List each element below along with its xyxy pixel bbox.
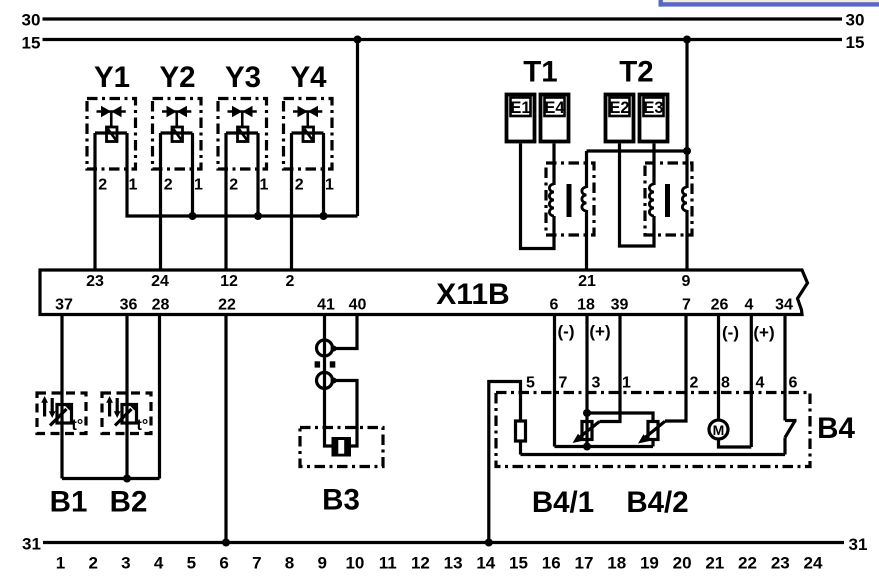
wire X11B 7 to B4 pin 2 wiper xyxy=(665,316,686,421)
svg-text:30: 30 xyxy=(846,11,865,30)
wire: secondary top link T1-T2 xyxy=(587,149,688,152)
wire: B1/B2/28 bottom link xyxy=(62,477,160,480)
B3 box xyxy=(300,428,383,467)
svg-text:16: 16 xyxy=(542,554,561,573)
svg-text:(+): (+) xyxy=(589,322,610,341)
UI window corner (blue) xyxy=(659,0,879,7)
svg-text:17: 17 xyxy=(575,554,594,573)
svg-text:11: 11 xyxy=(379,554,397,573)
svg-text:10: 10 xyxy=(345,554,364,573)
svg-text:B3: B3 xyxy=(322,484,360,517)
solenoid valve Y1 xyxy=(87,61,138,270)
svg-text:24: 24 xyxy=(804,554,823,573)
svg-text:9: 9 xyxy=(317,554,326,573)
svg-text:15: 15 xyxy=(846,33,865,52)
wire X11B 22 to line 31 xyxy=(224,316,227,543)
node: dot on line 31 xyxy=(485,539,493,547)
svg-text:13: 13 xyxy=(444,554,463,573)
solenoid valve Y2 xyxy=(153,61,204,270)
svg-text:31: 31 xyxy=(849,535,868,554)
shield connector bottom xyxy=(317,372,333,388)
wire X11B 28 xyxy=(158,316,161,479)
wire E3 to primary top xyxy=(652,144,655,186)
svg-text:T1: T1 xyxy=(523,56,557,89)
connector E4 xyxy=(541,95,569,142)
svg-text:E1: E1 xyxy=(510,99,530,117)
svg-text:12: 12 xyxy=(220,273,238,290)
svg-text:t°: t° xyxy=(72,417,84,434)
svg-text:21: 21 xyxy=(578,273,596,290)
svg-text:24: 24 xyxy=(151,273,169,290)
wire X11B 34 to B4 pin 6 switch xyxy=(783,316,786,421)
svg-text:4: 4 xyxy=(745,296,754,313)
svg-text:40: 40 xyxy=(349,296,367,313)
connector E1 xyxy=(507,95,535,142)
svg-text:8: 8 xyxy=(721,375,730,392)
svg-text:M: M xyxy=(713,422,725,438)
svg-text:1: 1 xyxy=(194,177,203,194)
svg-text:20: 20 xyxy=(673,554,692,573)
svg-text:3: 3 xyxy=(592,375,601,392)
connector E2 xyxy=(606,95,634,142)
wire X11B 36 through B2 xyxy=(125,316,128,479)
bus line 15 xyxy=(43,38,843,41)
node: Y2 pin1 junction xyxy=(189,212,197,220)
B4 box xyxy=(496,393,810,467)
knock sensor B3 xyxy=(300,316,383,517)
bus pots bottom xyxy=(555,445,654,448)
bottom pin numbers 1-24 xyxy=(56,554,823,573)
svg-text:23: 23 xyxy=(771,554,790,573)
wire from line 15 to X11B pin 9 through T2 secondary xyxy=(685,40,688,189)
node: Y4 pin1 junction xyxy=(320,212,328,220)
svg-text:B4/1: B4/1 xyxy=(532,486,594,519)
wire X11B 41 to element xyxy=(325,316,332,446)
T2 coil box xyxy=(645,163,692,235)
svg-text:Y3: Y3 xyxy=(225,61,261,94)
T2 core xyxy=(665,184,670,217)
svg-text:E2: E2 xyxy=(609,99,629,117)
potentiometer 1 xyxy=(583,409,591,417)
svg-text:B4: B4 xyxy=(817,412,855,445)
svg-text:E3: E3 xyxy=(643,99,663,117)
svg-text:2: 2 xyxy=(98,177,107,194)
svg-text:37: 37 xyxy=(55,296,73,313)
piezo element xyxy=(332,437,352,457)
svg-text:6: 6 xyxy=(789,375,798,392)
solenoid valve Y4 xyxy=(284,61,335,270)
potentiometer 2 xyxy=(648,422,658,440)
node: junction on pin-9 riser xyxy=(683,147,691,155)
svg-text:t°: t° xyxy=(137,417,149,434)
svg-text:18: 18 xyxy=(607,554,626,573)
svg-text:39: 39 xyxy=(611,296,629,313)
svg-text:2: 2 xyxy=(286,273,295,290)
svg-text:26: 26 xyxy=(711,296,729,313)
svg-text:7: 7 xyxy=(559,375,568,392)
svg-text:23: 23 xyxy=(86,273,104,290)
shield dashes xyxy=(315,361,321,367)
svg-text:6: 6 xyxy=(550,296,559,313)
temperature sensor B1 xyxy=(37,393,87,519)
svg-text:4: 4 xyxy=(154,554,164,573)
svg-text:2: 2 xyxy=(88,554,97,573)
wire pot1 top link to pot2 xyxy=(587,413,653,422)
svg-text:X11B: X11B xyxy=(436,278,509,311)
wire E4 to primary top xyxy=(552,144,555,186)
svg-text:8: 8 xyxy=(285,554,294,573)
T1 primary winding xyxy=(549,184,554,216)
svg-text:4: 4 xyxy=(756,375,765,392)
T2 secondary winding xyxy=(682,187,687,211)
wire X11B 39 to B4 pin 1 xyxy=(600,316,621,422)
node: dot on line 15 at pin-9 riser xyxy=(683,36,691,44)
svg-text:15: 15 xyxy=(509,554,528,573)
bus line 30 xyxy=(43,17,843,20)
svg-text:22: 22 xyxy=(218,296,236,313)
node: dot on line 15 at riser xyxy=(354,36,362,44)
wire E1 to primary bottom xyxy=(521,144,555,249)
svg-text:34: 34 xyxy=(775,296,793,313)
svg-text:21: 21 xyxy=(705,554,724,573)
resistor R on pin 5 xyxy=(516,421,526,441)
svg-text:(-): (-) xyxy=(722,323,739,342)
svg-text:1: 1 xyxy=(325,177,334,194)
svg-text:E4: E4 xyxy=(544,99,565,117)
svg-text:22: 22 xyxy=(738,554,757,573)
inner ground bus xyxy=(521,453,786,456)
wire X11B 37 through B1 xyxy=(60,316,63,479)
T1 secondary winding xyxy=(582,187,587,211)
svg-text:B2: B2 xyxy=(110,486,148,519)
svg-text:19: 19 xyxy=(640,554,659,573)
svg-text:2: 2 xyxy=(229,177,238,194)
node: Y3 pin1 junction xyxy=(254,212,262,220)
svg-text:5: 5 xyxy=(187,554,196,573)
svg-text:15: 15 xyxy=(22,34,41,53)
svg-text:2: 2 xyxy=(295,177,304,194)
svg-text:31: 31 xyxy=(22,535,41,554)
node: dot on line 31 at wire 22 xyxy=(222,539,230,547)
svg-text:6: 6 xyxy=(219,554,228,573)
svg-text:1: 1 xyxy=(622,375,631,392)
svg-text:1: 1 xyxy=(260,177,269,194)
svg-text:Y4: Y4 xyxy=(290,61,327,94)
svg-text:2: 2 xyxy=(690,375,699,392)
wire shield bottom to element right xyxy=(334,381,357,447)
wire X11B 18 to B4 pin 3 xyxy=(585,316,588,447)
connector strip X11B xyxy=(40,270,808,315)
ground line 31 xyxy=(43,541,844,544)
svg-text:18: 18 xyxy=(577,296,595,313)
temperature sensor B2 xyxy=(102,393,151,519)
motor M xyxy=(709,420,728,439)
throttle unit B4 xyxy=(485,316,856,547)
svg-text:7: 7 xyxy=(252,554,261,573)
T1 core xyxy=(567,184,572,217)
ignition coil T1 xyxy=(507,56,595,271)
switch on pin 6 xyxy=(785,419,797,422)
wire T1 secondary to X11B pin 21 xyxy=(585,151,588,188)
wire X11B 4 to B4 pin 4 xyxy=(750,316,753,447)
svg-text:1: 1 xyxy=(56,554,65,573)
svg-text:9: 9 xyxy=(682,273,691,290)
svg-text:Y1: Y1 xyxy=(94,61,130,94)
svg-text:(-): (-) xyxy=(558,322,575,341)
wire X11B 40 to shield top xyxy=(334,316,357,349)
solenoid valve Y3 xyxy=(218,61,269,270)
svg-text:28: 28 xyxy=(152,296,170,313)
svg-text:1: 1 xyxy=(129,177,138,194)
svg-text:36: 36 xyxy=(120,296,138,313)
wire X11B 6 to B4 pin 7 xyxy=(553,316,556,447)
ignition coil T2 xyxy=(606,56,693,247)
svg-text:30: 30 xyxy=(22,11,41,30)
svg-text:7: 7 xyxy=(682,296,691,313)
node: B2 junction xyxy=(123,475,131,483)
svg-text:3: 3 xyxy=(121,554,130,573)
ground wire line31 to B4 pin 5 xyxy=(489,382,521,543)
wire: valve pin-1 bus xyxy=(126,214,358,217)
wire: riser from line 15 to valve bus xyxy=(356,40,359,217)
wire E2 to primary bottom xyxy=(620,144,655,247)
svg-text:T2: T2 xyxy=(619,56,653,89)
svg-text:B1: B1 xyxy=(50,486,88,519)
shield connector top xyxy=(317,340,333,356)
T1 coil box xyxy=(546,163,594,235)
svg-text:2: 2 xyxy=(164,177,173,194)
svg-text:5: 5 xyxy=(526,375,535,392)
svg-text:(+): (+) xyxy=(753,323,774,342)
svg-text:B4/2: B4/2 xyxy=(626,486,688,519)
connector E3 xyxy=(640,95,668,142)
wire X11B 26 to B4 pin 8 motor xyxy=(717,316,720,421)
T2 primary winding xyxy=(649,184,654,216)
svg-text:12: 12 xyxy=(411,554,430,573)
svg-text:14: 14 xyxy=(476,554,495,573)
svg-text:41: 41 xyxy=(317,296,335,313)
svg-text:Y2: Y2 xyxy=(159,61,195,94)
